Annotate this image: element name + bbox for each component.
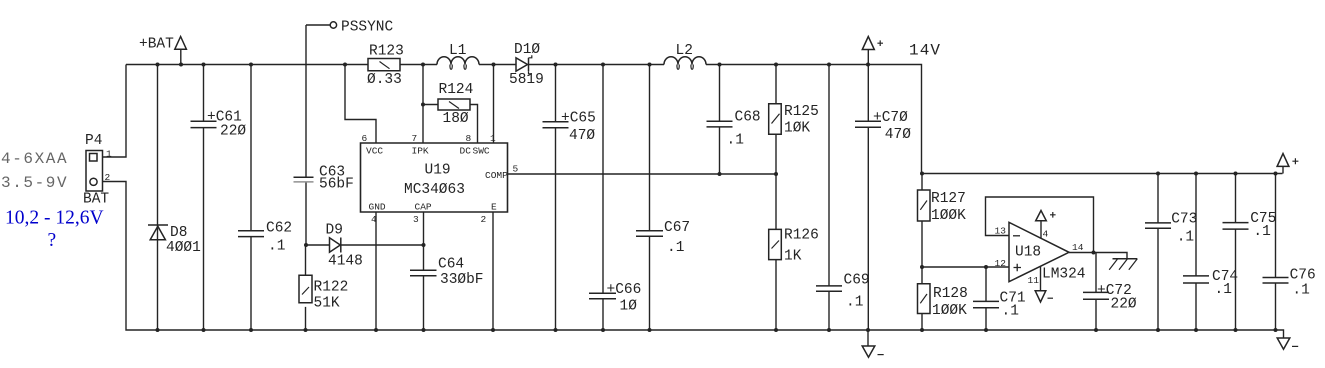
svg-text:2: 2	[105, 172, 111, 183]
svg-text:+C7Ø: +C7Ø	[873, 110, 908, 126]
schottky diode D10	[516, 55, 532, 74]
capacitor C73	[1145, 223, 1171, 228]
svg-text:7: 7	[412, 133, 418, 144]
svg-text:.1: .1	[727, 133, 744, 149]
wire +BAT arrow stem	[180, 49, 182, 64]
capacitor C66	[589, 293, 616, 299]
wire top rail L2-to-right, corner down to right bus	[706, 65, 922, 174]
junction dots on D9 net	[304, 103, 426, 248]
svg-text:P4: P4	[85, 133, 102, 149]
junction dots on COMP net	[718, 172, 779, 176]
IC U19 MC34063 box	[361, 143, 508, 212]
svg-text:C69: C69	[844, 273, 870, 289]
svg-text:8: 8	[466, 133, 472, 144]
svg-text:MC34Ø63: MC34Ø63	[404, 182, 465, 198]
wire PSSYNC column through C63 down to D9 node and R122	[305, 25, 308, 330]
svg-text:1ØØK: 1ØØK	[932, 303, 967, 319]
wire op-amp output pin 14 to ground symbol	[1069, 253, 1127, 259]
svg-text:2: 2	[481, 214, 487, 225]
svg-text:1ØK: 1ØK	[784, 121, 810, 137]
resistor R126	[769, 229, 782, 259]
wire R125/R126 column	[775, 65, 777, 331]
power arrow plus at right bus	[1277, 154, 1289, 167]
capacitor C74	[1183, 276, 1209, 283]
wire top rail to U19 pin 1 SWC	[493, 65, 495, 144]
svg-text:3: 3	[413, 214, 419, 225]
wire +BAT top rail left segment	[126, 64, 368, 66]
svg-text:D9: D9	[326, 222, 343, 238]
svg-text:R123: R123	[369, 43, 404, 59]
svg-text:14: 14	[1072, 242, 1084, 253]
wire P4 pin 1 to top rail	[102, 65, 126, 158]
plus sign at V+ arrow	[1050, 212, 1056, 218]
minus sign at bottom right arrow	[1292, 345, 1298, 347]
minus sign inverting input	[1013, 235, 1020, 237]
wire op-amp pin 13 input and feedback loop	[986, 197, 1094, 253]
wire U19 pin 4 GND stem to bottom rail	[375, 212, 377, 330]
svg-text:R128: R128	[933, 286, 968, 302]
minus sign at mid bottom arrow	[878, 354, 884, 356]
wire C61 column	[203, 65, 205, 331]
svg-text:22Ø: 22Ø	[1111, 296, 1137, 312]
svg-text:.1: .1	[846, 295, 863, 311]
wire C73 column	[1157, 174, 1159, 331]
wire top rail L1-to-D10 segment	[479, 64, 516, 66]
wire C74 column	[1195, 174, 1197, 331]
svg-text:.1: .1	[1292, 282, 1309, 298]
wire top rail D10-to-L2 segment	[529, 64, 664, 66]
diode D9	[330, 238, 341, 253]
svg-text:D8: D8	[170, 225, 187, 241]
inductor L2	[664, 57, 706, 70]
wire right horizontal bus	[922, 173, 1283, 175]
svg-text:47Ø: 47Ø	[569, 128, 595, 144]
resistor R128	[918, 284, 931, 314]
svg-text:COMP: COMP	[485, 170, 508, 181]
wire C65 column	[555, 65, 557, 331]
svg-text:4-6XAA: 4-6XAA	[1, 150, 68, 168]
power arrow 14V plus	[862, 37, 874, 50]
svg-text:4148: 4148	[328, 254, 363, 270]
power arrow at +BAT	[175, 37, 187, 50]
wire C71 column	[985, 267, 987, 330]
svg-text:+C65: +C65	[561, 110, 596, 126]
svg-text:U19: U19	[425, 163, 451, 179]
wire D9 net segments	[306, 244, 424, 246]
svg-text:BAT: BAT	[83, 191, 109, 207]
svg-text:1ØØK: 1ØØK	[931, 208, 966, 224]
wire PSSYNC terminal lead	[306, 24, 330, 26]
capacitor C72	[1083, 292, 1109, 299]
svg-text:13: 13	[995, 225, 1007, 236]
svg-text:L1: L1	[449, 43, 466, 59]
svg-text:4ØØ1: 4ØØ1	[166, 240, 201, 256]
terminal circle PSSYNC	[330, 22, 336, 28]
junction dots on right bus	[920, 172, 1278, 176]
wire R124 right terminal to U19 pin 8	[470, 105, 478, 144]
junction dots on op-amp input and output nets	[920, 251, 1096, 270]
svg-text:R126: R126	[784, 227, 819, 243]
svg-text:33ØbF: 33ØbF	[440, 272, 484, 288]
wire C72 column	[1095, 253, 1097, 331]
op-amp U18 triangle	[1009, 222, 1069, 281]
svg-text:22Ø: 22Ø	[220, 124, 246, 140]
capacitor C68	[707, 121, 733, 127]
capacitor C62	[238, 231, 264, 237]
svg-text:+C66: +C66	[607, 282, 642, 298]
inductor L1	[437, 57, 479, 70]
capacitor C75	[1223, 223, 1249, 230]
svg-text:C76: C76	[1290, 267, 1316, 283]
svg-text:R127: R127	[931, 191, 966, 207]
wire 14V minus arrow stem	[867, 330, 869, 346]
wire 14V node column through C70	[867, 50, 869, 331]
svg-text:3.5-9V: 3.5-9V	[1, 174, 68, 192]
plus sign at 14V arrow	[877, 40, 883, 46]
svg-text:.1: .1	[1253, 224, 1270, 240]
svg-text:1Ø: 1Ø	[620, 298, 638, 314]
capacitor C64	[410, 270, 437, 275]
wire bottom rail right tail to minus arrow	[1276, 330, 1284, 338]
svg-text:CAP: CAP	[415, 201, 432, 212]
svg-text:R122: R122	[314, 280, 349, 296]
capacitor C69	[816, 286, 842, 291]
capacitor C70	[855, 121, 881, 127]
svg-text:R125: R125	[784, 104, 819, 120]
capacitor C71	[973, 301, 999, 307]
wire C69 column	[828, 65, 830, 331]
wire right bus plus arrow stem	[1282, 166, 1284, 173]
capacitor C76	[1263, 278, 1289, 284]
resistor R125	[769, 104, 782, 135]
svg-text:L2: L2	[676, 43, 693, 59]
svg-text:DC: DC	[460, 145, 472, 156]
svg-text:.1: .1	[268, 239, 285, 255]
svg-text:C73: C73	[1171, 212, 1197, 228]
junction dots on bottom rail	[156, 328, 1278, 332]
svg-text:D1Ø: D1Ø	[514, 42, 540, 58]
wire VCC feed from top rail to U19 pin 6	[345, 65, 376, 144]
wire op-amp pin 12 input	[922, 266, 1009, 268]
wire D8 column	[157, 65, 159, 331]
wire C62 column	[250, 65, 252, 331]
svg-text:4: 4	[1043, 228, 1049, 239]
svg-text:12: 12	[995, 258, 1007, 269]
resistor R123	[368, 59, 400, 71]
svg-text:SWC: SWC	[473, 145, 490, 156]
svg-text:?: ?	[48, 230, 57, 251]
op-amp V- arrow with stem	[1035, 266, 1046, 302]
wire C76 column	[1275, 174, 1277, 331]
svg-text:R124: R124	[439, 82, 474, 98]
svg-text:PSSYNC: PSSYNC	[341, 19, 394, 35]
svg-text:C68: C68	[735, 109, 761, 125]
svg-text:1: 1	[490, 133, 496, 144]
power arrow minus at bottom right	[1277, 338, 1290, 349]
resistor R127	[918, 190, 931, 221]
svg-text:51K: 51K	[314, 296, 340, 312]
connector P4	[86, 151, 103, 192]
svg-text:C64: C64	[438, 257, 464, 273]
svg-text:56bF: 56bF	[319, 176, 354, 192]
svg-text:10,2 - 12,6V: 10,2 - 12,6V	[5, 208, 104, 229]
resistor R122	[299, 275, 312, 302]
wire U19 pin 3 CAP stem through C64	[423, 212, 425, 330]
wire C67 column	[649, 65, 651, 331]
wire top rail R123-to-L1 segment	[400, 64, 437, 66]
plus sign at right bus arrow	[1292, 158, 1298, 164]
resistor R124	[438, 99, 470, 110]
svg-text:C62: C62	[266, 221, 292, 237]
signal ground symbol at op-amp output	[1109, 259, 1137, 270]
capacitor C65	[543, 122, 569, 128]
wire C68 column to COMP net	[719, 65, 721, 175]
wire COMP net from U19 pin 5 to R125/R126 divider	[508, 173, 777, 175]
svg-text:18Ø: 18Ø	[443, 111, 469, 127]
svg-text:E: E	[491, 201, 497, 212]
capacitor C67	[636, 231, 663, 236]
svg-text:LM324: LM324	[1042, 267, 1086, 283]
junction dots on top rail	[156, 63, 871, 67]
diode D8	[148, 225, 168, 240]
capacitor C61	[191, 121, 217, 127]
svg-text:.1: .1	[1002, 304, 1019, 320]
capacitor C63	[294, 177, 314, 182]
svg-text:+BAT: +BAT	[139, 37, 174, 53]
svg-text:.1: .1	[1177, 229, 1194, 245]
wire U19 pin 2 E stem to bottom rail	[492, 212, 494, 330]
plus sign non-inverting input	[1014, 264, 1022, 271]
svg-text:14V: 14V	[909, 42, 941, 60]
power arrow minus below C69 node	[862, 346, 875, 357]
wire top rail to U19 pin 7 / R124 left branch	[423, 65, 438, 144]
svg-text:.1: .1	[667, 240, 684, 256]
svg-text:1: 1	[106, 149, 112, 160]
svg-text:VCC: VCC	[366, 145, 383, 156]
svg-text:1K: 1K	[784, 248, 802, 264]
svg-text:C67: C67	[664, 220, 690, 236]
svg-text:11: 11	[1028, 275, 1040, 286]
wire C66 column	[602, 65, 604, 331]
svg-text:IPK: IPK	[412, 145, 429, 156]
wire bottom ground rail with P4 pin2 feed	[102, 182, 1276, 331]
svg-text:5: 5	[513, 164, 519, 175]
svg-text:.1: .1	[1215, 282, 1232, 298]
op-amp V+ arrow with stem	[1036, 211, 1047, 239]
svg-text:5819: 5819	[509, 72, 544, 88]
svg-text:4: 4	[371, 214, 377, 225]
svg-text:GND: GND	[369, 201, 386, 212]
svg-text:6: 6	[362, 133, 368, 144]
wire R127/R128 column	[921, 174, 923, 331]
wire C75 column	[1235, 174, 1237, 331]
minus sign at V- arrow	[1048, 297, 1054, 299]
svg-text:47Ø: 47Ø	[885, 127, 911, 143]
svg-text:U18: U18	[1015, 244, 1041, 260]
svg-text:Ø.33: Ø.33	[367, 72, 402, 88]
